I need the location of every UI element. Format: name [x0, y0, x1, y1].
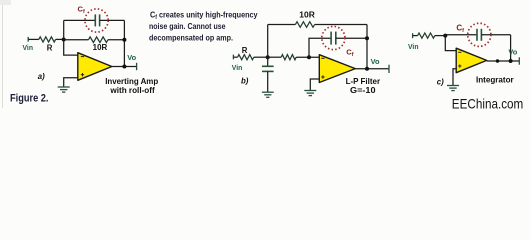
wire node1 to resistor R2 b: [268, 56, 282, 58]
svg-text:b): b): [241, 76, 249, 85]
op-amp a minus sign: [81, 56, 84, 58]
wire output a: [112, 66, 137, 68]
wire R to node A: [56, 38, 64, 40]
svg-text:Vo: Vo: [127, 53, 136, 62]
node node2 junction dot b: [307, 55, 311, 59]
dotted red circle around Cf b: [322, 26, 345, 49]
resistor R: [39, 37, 56, 42]
svg-text:R: R: [242, 46, 248, 55]
capacitor C to ground b plates: [262, 65, 274, 67]
node junction dot mid right a: [122, 38, 126, 42]
faint top-left smudge: [0, 0, 11, 5]
wire Vin to resistor R c: [413, 35, 418, 37]
ground b op-amp: [304, 91, 316, 96]
node A junction dot (inverting summing node a): [62, 38, 66, 42]
op-amp b plus sign: [321, 76, 324, 78]
node Vo output terminal b: [388, 65, 390, 73]
op-amp c minus sign: [458, 51, 461, 53]
svg-text:Vo: Vo: [508, 47, 517, 56]
wire non-inverting input to ground a: [64, 78, 78, 87]
svg-text:Integrator: Integrator: [476, 75, 514, 84]
wire non-inverting input to ground c: [453, 69, 457, 85]
wire R to node1 b: [254, 56, 268, 58]
svg-text:noise gain. Cannot use: noise gain. Cannot use: [149, 21, 226, 31]
node output junction dot a: [122, 65, 126, 69]
wire R to node c: [435, 35, 446, 37]
op-amp U1 a: [78, 53, 112, 81]
svg-text:c): c): [437, 77, 444, 86]
capacitor Cf plates c: [476, 29, 478, 41]
svg-text:Vin: Vin: [232, 63, 243, 72]
svg-text:EEChina.com: EEChina.com: [452, 97, 524, 112]
op-amp a plus sign: [81, 74, 84, 76]
node output junction dot b: [365, 67, 369, 71]
wire node2 riser up to Cf branch b: [309, 38, 331, 57]
capacitor Cf plates a: [94, 14, 96, 26]
op-amp U2 b: [319, 55, 355, 83]
svg-text:Vin: Vin: [408, 42, 419, 51]
resistor 10R b: [295, 22, 314, 28]
wire top branch right lead from capacitor to corner: [100, 19, 125, 21]
node junction dot c: [443, 34, 447, 38]
wire top branch right lead b: [315, 24, 367, 26]
resistor R c: [418, 33, 435, 38]
svg-text:R: R: [47, 43, 53, 52]
wire inverting input drop a: [64, 40, 78, 56]
wire right vertical of feedback b: [366, 25, 368, 69]
svg-text:a): a): [38, 72, 45, 81]
node Vin input terminal b: [232, 55, 234, 60]
op-amp b minus sign: [321, 57, 324, 59]
node Vo output terminal c: [518, 57, 520, 64]
wire riser node1 up to top branch b: [267, 25, 269, 58]
wire inverting input drop c: [445, 36, 456, 51]
faint left border line: [2, 2, 4, 108]
ground a: [58, 87, 70, 92]
resistor 10R a: [89, 37, 109, 43]
wire non-inverting input to ground b: [310, 79, 319, 90]
svg-text:Vo: Vo: [371, 57, 380, 66]
svg-text:Figure 2.: Figure 2.: [10, 93, 49, 105]
wire R2 to node2 b: [296, 56, 320, 58]
node Vin input terminal c: [412, 33, 414, 38]
wire node A to resistor 10R: [64, 39, 89, 41]
svg-text:Cf creates unity high-frequenc: Cf creates unity high-frequency: [150, 10, 258, 21]
node Vo output terminal a: [136, 63, 138, 70]
resistor R b: [238, 55, 254, 60]
op-amp U3 c: [456, 48, 487, 72]
ground below C b: [262, 92, 274, 97]
dotted red circle around Cf c: [468, 23, 491, 46]
svg-text:10R: 10R: [93, 43, 108, 52]
dotted red circle around Cf a: [85, 9, 108, 32]
ground c: [447, 86, 459, 91]
wire top branch left lead to capacitor Cf: [64, 19, 96, 21]
svg-text:Inverting Amp: Inverting Amp: [105, 77, 158, 86]
wire feedback right vertical c: [510, 35, 512, 61]
wire capacitor to ground b: [267, 71, 269, 92]
wire node1 down to capacitor C b: [267, 57, 269, 66]
wire output b: [355, 68, 389, 70]
wire Cf right lead to feedback vertical b: [336, 37, 367, 39]
wire riser node A up to top branch: [63, 20, 65, 39]
node junction dot output c left: [496, 59, 500, 63]
resistor R2 b: [281, 55, 296, 60]
svg-text:G=-10: G=-10: [350, 85, 376, 95]
wire output c: [487, 60, 520, 62]
wire Vin to resistor R b: [233, 56, 237, 58]
wire top branch left lead to 10R b: [268, 24, 296, 26]
capacitor Cf plates b: [330, 32, 332, 45]
node Vin input terminal a: [27, 37, 29, 42]
wire node to capacitor Cf c: [445, 34, 477, 36]
node node1 junction dot b: [266, 55, 270, 59]
svg-text:decompensated op amp.: decompensated op amp.: [149, 32, 233, 42]
svg-text:Vin: Vin: [23, 43, 34, 52]
wire Vin to resistor R: [28, 38, 39, 40]
op-amp c plus sign: [458, 65, 461, 67]
wire 10R to right vertical: [108, 39, 124, 41]
node junction dot output c feedback: [509, 59, 513, 63]
wire Cf to top right corner c: [481, 34, 510, 36]
wire right vertical of feedback loop a: [123, 20, 125, 66]
svg-text:10R: 10R: [299, 11, 315, 20]
svg-text:with roll-off: with roll-off: [109, 86, 155, 95]
node junction dot Cf-feedback b: [365, 36, 369, 40]
